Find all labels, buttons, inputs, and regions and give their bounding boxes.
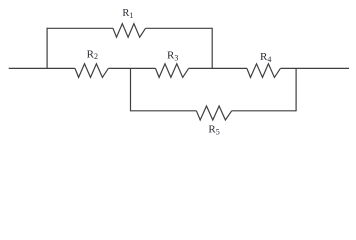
wire bottom-left segment	[131, 110, 197, 112]
wire left lead	[9, 67, 47, 69]
wire middle segment R3 to R4	[189, 67, 247, 69]
resistor R3	[156, 64, 189, 78]
wire middle segment A to R2	[47, 67, 75, 69]
wire bottom-left drop	[130, 68, 132, 111]
wire top-left segment	[47, 27, 113, 29]
svg-text:R2: R2	[87, 48, 98, 61]
svg-text:R5: R5	[208, 124, 219, 137]
wire left riser to top branch	[46, 28, 48, 69]
wire bottom-right riser	[295, 68, 297, 111]
wire right drop from top branch	[211, 28, 213, 69]
svg-text:R1: R1	[122, 8, 133, 20]
wire right lead	[280, 67, 349, 69]
wire top-right segment	[146, 27, 213, 29]
resistor R4	[247, 64, 281, 78]
resistor R2	[75, 64, 108, 78]
resistor R1	[113, 24, 146, 38]
wire middle segment R2 to R3	[108, 67, 155, 69]
wire bottom-right segment	[232, 110, 296, 112]
resistor R5	[196, 106, 231, 120]
svg-text:R3: R3	[167, 50, 178, 63]
svg-text:R4: R4	[260, 51, 271, 64]
